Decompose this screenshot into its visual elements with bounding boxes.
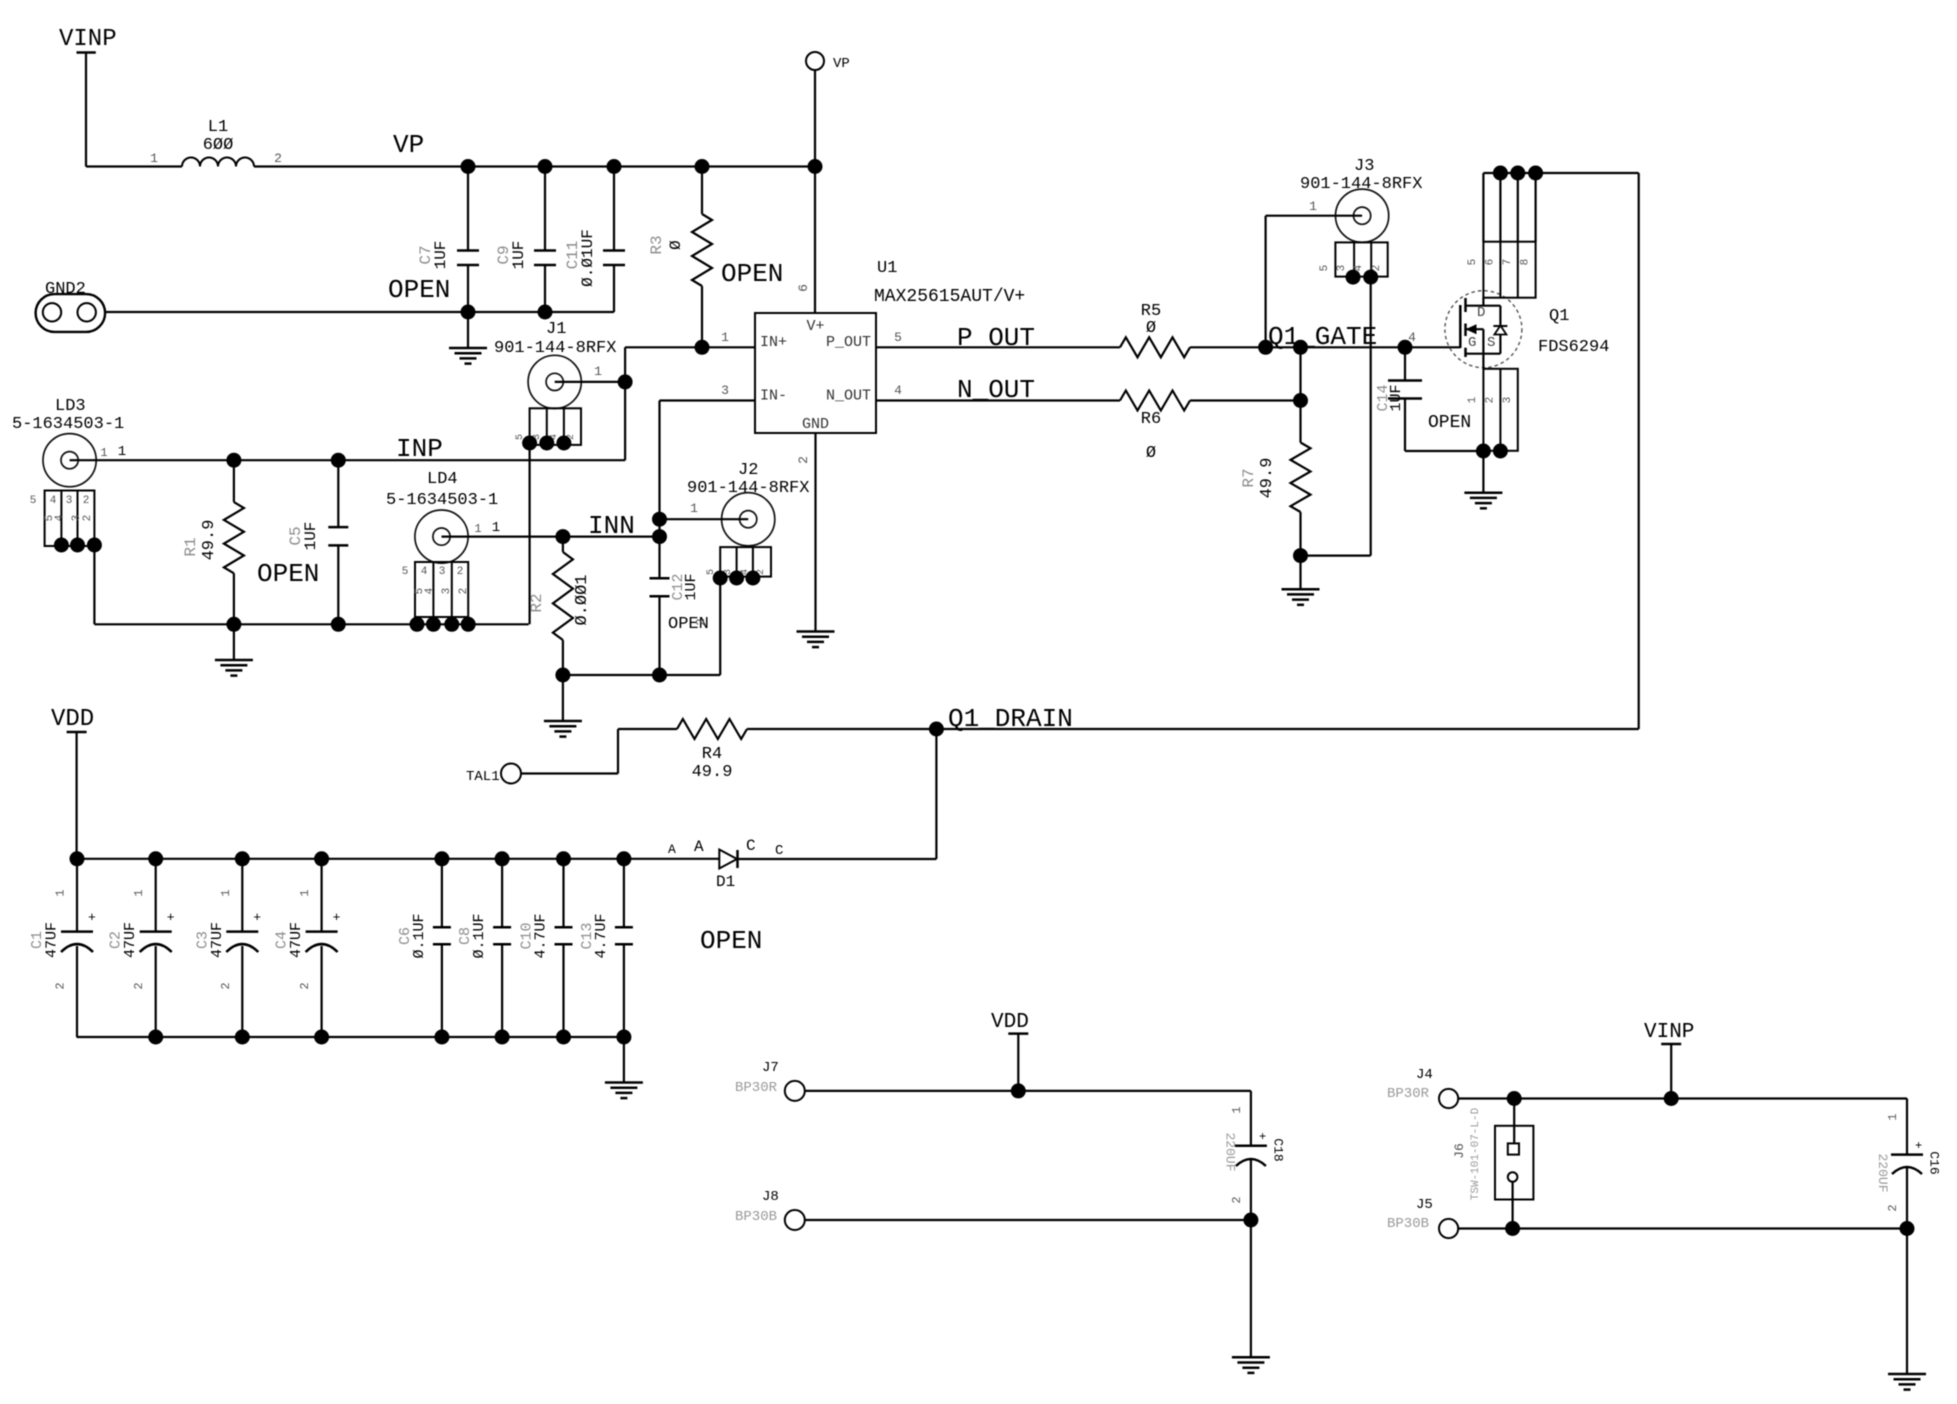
- svg-text:1: 1: [298, 889, 312, 896]
- svg-text:2: 2: [1485, 397, 1497, 404]
- wire C16 to ground: [1906, 1229, 1908, 1375]
- svg-text:4.7UF: 4.7UF: [593, 913, 610, 958]
- junction R2 bottom: [555, 668, 570, 683]
- svg-text:1: 1: [219, 889, 233, 896]
- svg-text:2: 2: [132, 982, 146, 989]
- capacitor C16: [1875, 1113, 1942, 1228]
- junction bottom bus: [314, 1030, 329, 1045]
- capacitor C5: [287, 460, 348, 624]
- capacitor C1: [29, 859, 96, 1037]
- junction bus / C3: [235, 851, 250, 866]
- svg-text:+: +: [167, 910, 175, 925]
- junction bus / R1: [226, 617, 241, 632]
- svg-text:R3: R3: [648, 235, 666, 254]
- ground (cap bank): [605, 1037, 643, 1098]
- wire INN from LD4: [442, 520, 660, 537]
- junction J3 pin 3: [1346, 270, 1361, 285]
- junction source pin 1: [1476, 444, 1491, 459]
- svg-text:4: 4: [421, 566, 428, 578]
- net label VDD (J7): [991, 1011, 1029, 1034]
- wire R4 to Q1_DRAIN: [747, 728, 936, 730]
- svg-text:R2: R2: [528, 593, 546, 612]
- svg-text:J6: J6: [1452, 1143, 1467, 1159]
- wire J1 to IN+ and INP: [624, 347, 626, 460]
- svg-text:1: 1: [1886, 1113, 1900, 1120]
- ground (R2): [544, 675, 582, 737]
- svg-text:C16: C16: [1927, 1151, 1942, 1174]
- wire VINP vertical to rail: [85, 53, 87, 167]
- wire J3 shield down: [1370, 277, 1372, 555]
- svg-text:G: G: [1468, 335, 1476, 351]
- svg-text:BP30B: BP30B: [1387, 1216, 1429, 1232]
- junction R7 bottom: [1293, 548, 1308, 563]
- svg-text:V+: V+: [806, 318, 824, 335]
- svg-text:IN-: IN-: [760, 388, 787, 405]
- svg-text:+: +: [1259, 1130, 1266, 1144]
- wire LD3 shield down: [93, 545, 95, 624]
- junction bottom bus: [434, 1030, 449, 1045]
- ground (R7): [1282, 556, 1320, 605]
- svg-text:BP30B: BP30B: [735, 1209, 777, 1225]
- svg-text:OPEN: OPEN: [700, 926, 762, 956]
- junction bus / C8: [495, 851, 510, 866]
- wire INP: [70, 444, 626, 460]
- junction C16 / J5: [1900, 1221, 1915, 1236]
- svg-text:Ø.ØØ1: Ø.ØØ1: [573, 574, 592, 625]
- svg-text:6: 6: [796, 284, 811, 292]
- wire IN- branch: [658, 401, 660, 537]
- svg-text:D1: D1: [716, 873, 735, 891]
- svg-text:2: 2: [219, 982, 233, 989]
- label OPEN (C5): [257, 559, 319, 589]
- wire R7 bottom to J3 shield: [1301, 554, 1371, 556]
- wire J2 pin 1: [660, 501, 749, 519]
- svg-text:1UF: 1UF: [510, 241, 528, 270]
- junction VP rail / C11: [607, 159, 622, 174]
- svg-text:R4: R4: [702, 745, 722, 764]
- junction INN / R2: [555, 529, 570, 544]
- wire J8 to C18: [805, 1219, 1251, 1221]
- wire C14 bottom to Q1 source: [1405, 450, 1483, 452]
- junction bus / C2: [148, 851, 163, 866]
- svg-text:Ø.Ø1UF: Ø.Ø1UF: [579, 229, 597, 287]
- junction drain pin 6: [1493, 166, 1508, 181]
- junction source pin 2: [1493, 444, 1508, 459]
- svg-text:1: 1: [1467, 396, 1479, 403]
- junction INN / C12: [652, 529, 667, 544]
- svg-text:7: 7: [1502, 259, 1514, 266]
- diode D1: [668, 837, 783, 891]
- wire Q1 drain pin 8: [1534, 173, 1536, 242]
- svg-text:3: 3: [1502, 397, 1514, 404]
- terminal J4: [1387, 1067, 1458, 1108]
- svg-text:OPEN: OPEN: [257, 559, 319, 589]
- terminal J5: [1387, 1197, 1458, 1238]
- terminal J7: [735, 1060, 805, 1101]
- label OPEN (C14): [1428, 413, 1471, 433]
- capacitor C10: [519, 859, 573, 1037]
- capacitor C6: [397, 859, 451, 1037]
- transistor Q1 FDS6294: [1445, 291, 1522, 369]
- wire GND2 net: [105, 311, 614, 313]
- capacitor C11: [564, 167, 625, 313]
- svg-text:+: +: [88, 910, 96, 925]
- svg-text:VP: VP: [393, 130, 424, 160]
- svg-text:+: +: [333, 910, 341, 925]
- label U1: [877, 259, 897, 278]
- wire cap bank bottom bus: [77, 1036, 624, 1038]
- wire J3 pin 1: [1266, 199, 1363, 347]
- connector LD3 shield pin box: [30, 491, 95, 547]
- svg-text:1: 1: [690, 501, 698, 516]
- wire D1 cathode: [738, 858, 937, 860]
- wire ground bus (INP side): [94, 623, 528, 625]
- svg-text:2: 2: [83, 495, 90, 507]
- svg-text:L1: L1: [208, 118, 228, 137]
- net label VDD: [51, 706, 94, 733]
- net label VINP (J4): [1644, 1021, 1694, 1044]
- svg-text:OPEN: OPEN: [1428, 413, 1471, 433]
- coax connector J2: [687, 461, 809, 546]
- junction gate / C14: [1398, 330, 1417, 355]
- wire VDD stem: [75, 732, 77, 859]
- junction C18 / J8: [1243, 1213, 1258, 1228]
- svg-text:LD4: LD4: [427, 470, 458, 489]
- terminal VP: [806, 52, 850, 167]
- connector J3 shield pin box: [1319, 242, 1388, 276]
- svg-text:3: 3: [721, 383, 729, 398]
- connector J2 shield pin box: [706, 547, 771, 577]
- svg-text:R7: R7: [1240, 468, 1258, 487]
- svg-text:5: 5: [1467, 259, 1479, 266]
- capacitor C18: [1223, 1106, 1286, 1220]
- wire Q1 drain right vertical: [1638, 173, 1640, 729]
- svg-text:2: 2: [82, 515, 94, 522]
- svg-text:2: 2: [274, 151, 282, 166]
- resistor R1: [182, 460, 244, 624]
- net label N_OUT: [957, 375, 1035, 405]
- svg-text:J8: J8: [762, 1189, 779, 1205]
- capacitor C8: [457, 859, 511, 1037]
- resistor R6: [1120, 391, 1190, 464]
- wire gate to N_OUT branch: [1299, 347, 1301, 400]
- wire Q1_DRAIN: [936, 728, 1638, 730]
- terminal TAL1: [466, 764, 521, 786]
- connector J1 shield pin box: [515, 408, 581, 445]
- svg-text:4.7UF: 4.7UF: [533, 913, 550, 958]
- svg-text:4: 4: [54, 514, 66, 521]
- svg-text:P_OUT: P_OUT: [826, 334, 871, 351]
- svg-text:3: 3: [66, 495, 73, 507]
- junction VP rail / C9: [538, 159, 553, 174]
- junction bus / C1: [70, 851, 85, 866]
- junction IN+ / R3: [695, 340, 710, 355]
- resistor R2: [528, 537, 592, 675]
- junction gate / J3: [1258, 340, 1273, 355]
- ground (GND2 node): [449, 312, 487, 364]
- svg-text:R1: R1: [182, 537, 200, 556]
- svg-text:5-1634503-1: 5-1634503-1: [386, 491, 498, 510]
- connector LD4 shield pin box: [402, 562, 470, 617]
- wire U1 pin 1 IN+: [625, 330, 755, 347]
- junction GND2 / C9: [538, 305, 553, 320]
- svg-text:Ø.1UF: Ø.1UF: [411, 913, 428, 958]
- wire VDD bus: [77, 858, 720, 860]
- svg-text:OPEN: OPEN: [721, 259, 783, 289]
- svg-text:4: 4: [894, 383, 902, 398]
- svg-text:47UF: 47UF: [288, 922, 305, 958]
- wire U1 pin 6 V+: [796, 167, 815, 314]
- svg-text:VP: VP: [833, 56, 850, 72]
- wire C18 to ground: [1250, 1220, 1252, 1357]
- resistor R3: [648, 167, 712, 348]
- junction GND2 / C7: [461, 305, 476, 320]
- junction bus / C4: [314, 851, 329, 866]
- wire U1 pin 2 GND: [796, 433, 816, 632]
- wire J7 to C18: [805, 1091, 1251, 1146]
- svg-text:C18: C18: [1271, 1138, 1286, 1161]
- svg-text:VDD: VDD: [991, 1011, 1029, 1034]
- svg-text:2: 2: [457, 566, 464, 578]
- svg-text:1UF: 1UF: [302, 522, 320, 551]
- capacitor C3: [194, 859, 261, 1037]
- pin header J6: [1452, 1107, 1533, 1200]
- svg-text:2: 2: [458, 588, 470, 595]
- wire Q1 drain pin 7: [1517, 173, 1519, 242]
- svg-text:2: 2: [796, 456, 811, 464]
- junction J6 bottom: [1505, 1221, 1520, 1236]
- label OPEN (C7): [388, 275, 450, 305]
- svg-text:1: 1: [118, 444, 126, 460]
- svg-text:FDS6294: FDS6294: [1538, 338, 1609, 357]
- net label INN: [588, 511, 635, 541]
- resistor R4: [677, 719, 747, 782]
- label OPEN (C14 net): [0, 0, 1, 1]
- svg-text:Ø.1UF: Ø.1UF: [471, 913, 488, 958]
- svg-text:GND2: GND2: [45, 280, 86, 299]
- svg-text:OPEN: OPEN: [388, 275, 450, 305]
- connector Q1 source pin box: [1467, 369, 1518, 451]
- label OPEN (R3): [721, 259, 783, 289]
- junction bus / C6: [434, 851, 449, 866]
- svg-text:INP: INP: [396, 434, 443, 464]
- svg-text:8: 8: [1520, 259, 1532, 266]
- svg-text:VINP: VINP: [59, 26, 117, 53]
- svg-text:BP30R: BP30R: [735, 1080, 778, 1096]
- svg-text:Ø: Ø: [1146, 319, 1156, 338]
- svg-text:1: 1: [100, 446, 107, 460]
- svg-text:49.9: 49.9: [692, 763, 733, 782]
- junction gate / R6 branch: [1293, 340, 1308, 355]
- svg-text:A: A: [694, 838, 704, 856]
- wire R5 to Q1 gate: [1190, 346, 1460, 348]
- svg-text:J2: J2: [738, 461, 758, 480]
- svg-text:J1: J1: [546, 320, 566, 339]
- svg-text:2: 2: [54, 982, 68, 989]
- svg-text:J5: J5: [1416, 1197, 1433, 1213]
- capacitor C7: [417, 167, 479, 313]
- svg-text:TSW-101-07-L-D: TSW-101-07-L-D: [1470, 1107, 1482, 1200]
- wire Q1 drain pin 5: [1482, 173, 1484, 242]
- wire Q1 drain pin 6: [1499, 173, 1501, 242]
- junction bottom bus: [148, 1030, 163, 1045]
- junction J3 pin 4: [1363, 270, 1378, 285]
- junction LD3 pin: [54, 538, 102, 553]
- svg-text:4: 4: [1408, 330, 1416, 345]
- capacitor C9: [495, 167, 556, 313]
- svg-text:3: 3: [439, 566, 446, 578]
- svg-text:IN+: IN+: [760, 334, 787, 351]
- resistor R7: [1240, 401, 1311, 556]
- junction INP / R1: [226, 453, 241, 468]
- svg-text:47UF: 47UF: [44, 922, 61, 958]
- junction LD4 pins: [410, 617, 476, 632]
- svg-text:901-144-8RFX: 901-144-8RFX: [687, 479, 809, 498]
- svg-text:VINP: VINP: [1644, 1021, 1694, 1044]
- svg-text:P_OUT: P_OUT: [957, 323, 1035, 353]
- junction drain pin 7: [1510, 166, 1525, 181]
- svg-text:INN: INN: [588, 511, 635, 541]
- svg-text:2: 2: [1886, 1204, 1900, 1211]
- wire J6 pin bottom: [1511, 1182, 1513, 1229]
- coax connector J3: [1300, 157, 1422, 242]
- svg-text:1: 1: [594, 364, 602, 379]
- wire J2 shield down: [563, 578, 720, 675]
- svg-text:+: +: [253, 910, 261, 925]
- wire VDD stem (J7): [1017, 1034, 1019, 1091]
- svg-text:GND: GND: [802, 416, 829, 433]
- svg-text:5: 5: [894, 330, 902, 345]
- label FDS6294: [1538, 338, 1609, 357]
- svg-text:1: 1: [492, 520, 500, 536]
- junction VINP / J4 wire: [1664, 1091, 1679, 1106]
- svg-text:220UF: 220UF: [1223, 1132, 1238, 1171]
- svg-text:5: 5: [402, 566, 409, 578]
- capacitor C2: [108, 859, 175, 1037]
- wire VP rail: [254, 165, 815, 167]
- svg-text:Ø: Ø: [1146, 444, 1156, 463]
- svg-text:Q1: Q1: [1549, 307, 1569, 326]
- wire J1 shield down: [528, 443, 530, 624]
- junction VDD / J7 wire: [1011, 1083, 1026, 1098]
- ground (C16): [1888, 1374, 1926, 1390]
- svg-text:1UF: 1UF: [432, 241, 450, 270]
- svg-text:N_OUT: N_OUT: [957, 375, 1035, 405]
- wire J6 pin top: [1513, 1099, 1515, 1144]
- svg-text:A: A: [668, 842, 676, 857]
- svg-text:S: S: [1487, 335, 1495, 351]
- junction bus / C13: [616, 851, 631, 866]
- wire R6 to R7: [1190, 399, 1301, 401]
- junction bus / C10: [556, 851, 571, 866]
- wire J5 to C16: [1458, 1227, 1907, 1229]
- svg-text:R6: R6: [1141, 410, 1161, 429]
- svg-text:6: 6: [1485, 259, 1497, 266]
- junction J6 top: [1507, 1091, 1522, 1106]
- label MAX25615AUT/V+: [874, 287, 1025, 307]
- junction J1 pin 1: [618, 374, 633, 389]
- svg-text:1: 1: [54, 889, 68, 896]
- junction INP / C5: [331, 453, 346, 468]
- wire U1 pin 3 IN-: [660, 383, 756, 401]
- svg-text:J7: J7: [762, 1060, 779, 1076]
- connector Q1 drain pin box: [1467, 242, 1536, 298]
- inductor L1: [150, 118, 282, 167]
- svg-text:TAL1: TAL1: [466, 769, 500, 785]
- connector GND2: [36, 280, 106, 332]
- ground (Q1 source): [1464, 451, 1502, 508]
- net label VP: [393, 130, 424, 160]
- svg-text:D: D: [1477, 305, 1485, 321]
- wire N_OUT: [876, 383, 1120, 401]
- wire J1 pin 1: [555, 364, 625, 382]
- wire TAL1: [521, 729, 677, 774]
- net label VINP (power input): [59, 26, 117, 53]
- resistor R5: [1120, 302, 1190, 357]
- terminal J8: [735, 1189, 805, 1230]
- svg-text:6ØØ: 6ØØ: [203, 136, 234, 155]
- svg-text:VDD: VDD: [51, 706, 94, 733]
- svg-text:5-1634503-1: 5-1634503-1: [12, 415, 124, 434]
- svg-text:4: 4: [424, 587, 436, 594]
- svg-text:1: 1: [474, 522, 481, 536]
- label Q1: [1549, 307, 1569, 326]
- svg-text:1: 1: [1230, 1106, 1244, 1113]
- capacitor C4: [274, 859, 341, 1037]
- junction bus / C5: [331, 617, 346, 632]
- wire J4 to C16: [1458, 1099, 1907, 1155]
- coax connector J1: [494, 320, 616, 409]
- label OPEN (C12): [668, 615, 709, 634]
- net label INP: [396, 434, 443, 464]
- svg-text:MAX25615AUT/V+: MAX25615AUT/V+: [874, 287, 1025, 307]
- junction bottom bus: [556, 1030, 571, 1045]
- svg-text:49.9: 49.9: [200, 520, 219, 561]
- junction drain pin 8: [1528, 166, 1543, 181]
- coax connector LD3: [12, 397, 124, 487]
- svg-text:5: 5: [30, 495, 37, 507]
- svg-text:N_OUT: N_OUT: [826, 388, 871, 405]
- svg-text:J4: J4: [1416, 1067, 1433, 1083]
- svg-text:2: 2: [694, 618, 708, 625]
- capacitor C12: [650, 537, 701, 675]
- svg-text:5: 5: [1319, 265, 1331, 272]
- svg-text:47UF: 47UF: [209, 922, 226, 958]
- wire VINP stem (J4): [1670, 1044, 1672, 1099]
- svg-text:U1: U1: [877, 259, 897, 278]
- wire P_OUT: [876, 330, 1120, 347]
- ground (INP bus): [215, 624, 253, 675]
- svg-text:C: C: [775, 843, 783, 859]
- svg-text:49.9: 49.9: [1258, 458, 1277, 499]
- svg-text:220UF: 220UF: [1875, 1153, 1890, 1192]
- net label P_OUT: [957, 323, 1035, 353]
- svg-text:4: 4: [50, 495, 57, 507]
- ground (C18): [1232, 1357, 1270, 1373]
- capacitor C14: [1375, 347, 1422, 451]
- junction bottom bus: [616, 1030, 631, 1045]
- junction N_OUT / R7: [1293, 393, 1308, 408]
- junction VP rail / U1 V+: [808, 159, 823, 174]
- wire rail left segment: [86, 165, 182, 167]
- op-amp U1 MAX25615AUT/V+ box: [755, 313, 876, 433]
- junction J2 pin 1 / IN- branch: [652, 512, 667, 527]
- junction bottom bus: [495, 1030, 510, 1045]
- svg-text:LD3: LD3: [55, 397, 86, 416]
- junction VP rail / C7: [461, 159, 476, 174]
- svg-text:1UF: 1UF: [683, 573, 700, 600]
- svg-text:1: 1: [132, 889, 146, 896]
